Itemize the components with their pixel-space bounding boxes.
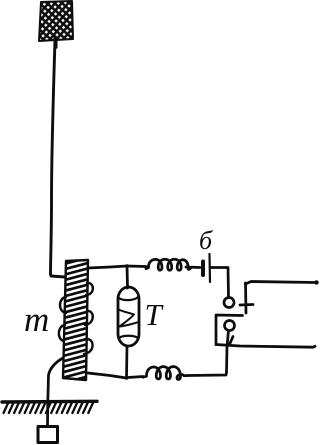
wire coil top to node A [88, 266, 127, 268]
wire coherer top stub [126, 287, 129, 288]
coil m core [60, 256, 94, 395]
inductor L1 [146, 259, 191, 270]
contact circle top [224, 298, 234, 308]
earth surface line [2, 400, 97, 404]
wire coherer bottom to node B [125, 346, 128, 378]
svg-text:б: б [199, 226, 213, 255]
contact blade with crossbar [240, 283, 253, 313]
battery Б long plate [208, 254, 211, 282]
coil m winding loops [59, 283, 93, 354]
wire coil bottom to node B [88, 373, 127, 378]
wire node A to coherer top [126, 266, 129, 287]
antenna neck stub [54, 38, 58, 47]
battery Б short plate [201, 262, 205, 276]
wire battery to top contact [210, 268, 229, 298]
node B bottom junction [125, 376, 129, 380]
wire L1 to battery [186, 266, 200, 269]
earth plate box [38, 427, 58, 443]
bracket around bottom contact [216, 315, 243, 345]
earth hatching [4, 403, 94, 413]
wire bottom right to edge [216, 345, 315, 348]
svg-text:T: T [145, 297, 165, 332]
wire top right to edge [246, 282, 317, 285]
wire switch down to inductor L2 [188, 372, 227, 376]
wire coil to earth plate [48, 358, 64, 426]
svg-text:m: m [24, 300, 49, 339]
antenna plate A [39, 1, 73, 41]
inductor L2 [143, 367, 188, 380]
coherer T capsule [118, 287, 139, 346]
node A junction [125, 264, 129, 268]
wire node A to inductor L1 [127, 265, 146, 268]
contact tick bottom [230, 337, 234, 345]
wire antenna lead-in [51, 40, 66, 277]
contact circle bottom [225, 321, 235, 331]
wire bottom contact down [227, 331, 229, 373]
wire L2 to bottom node [128, 377, 143, 378]
